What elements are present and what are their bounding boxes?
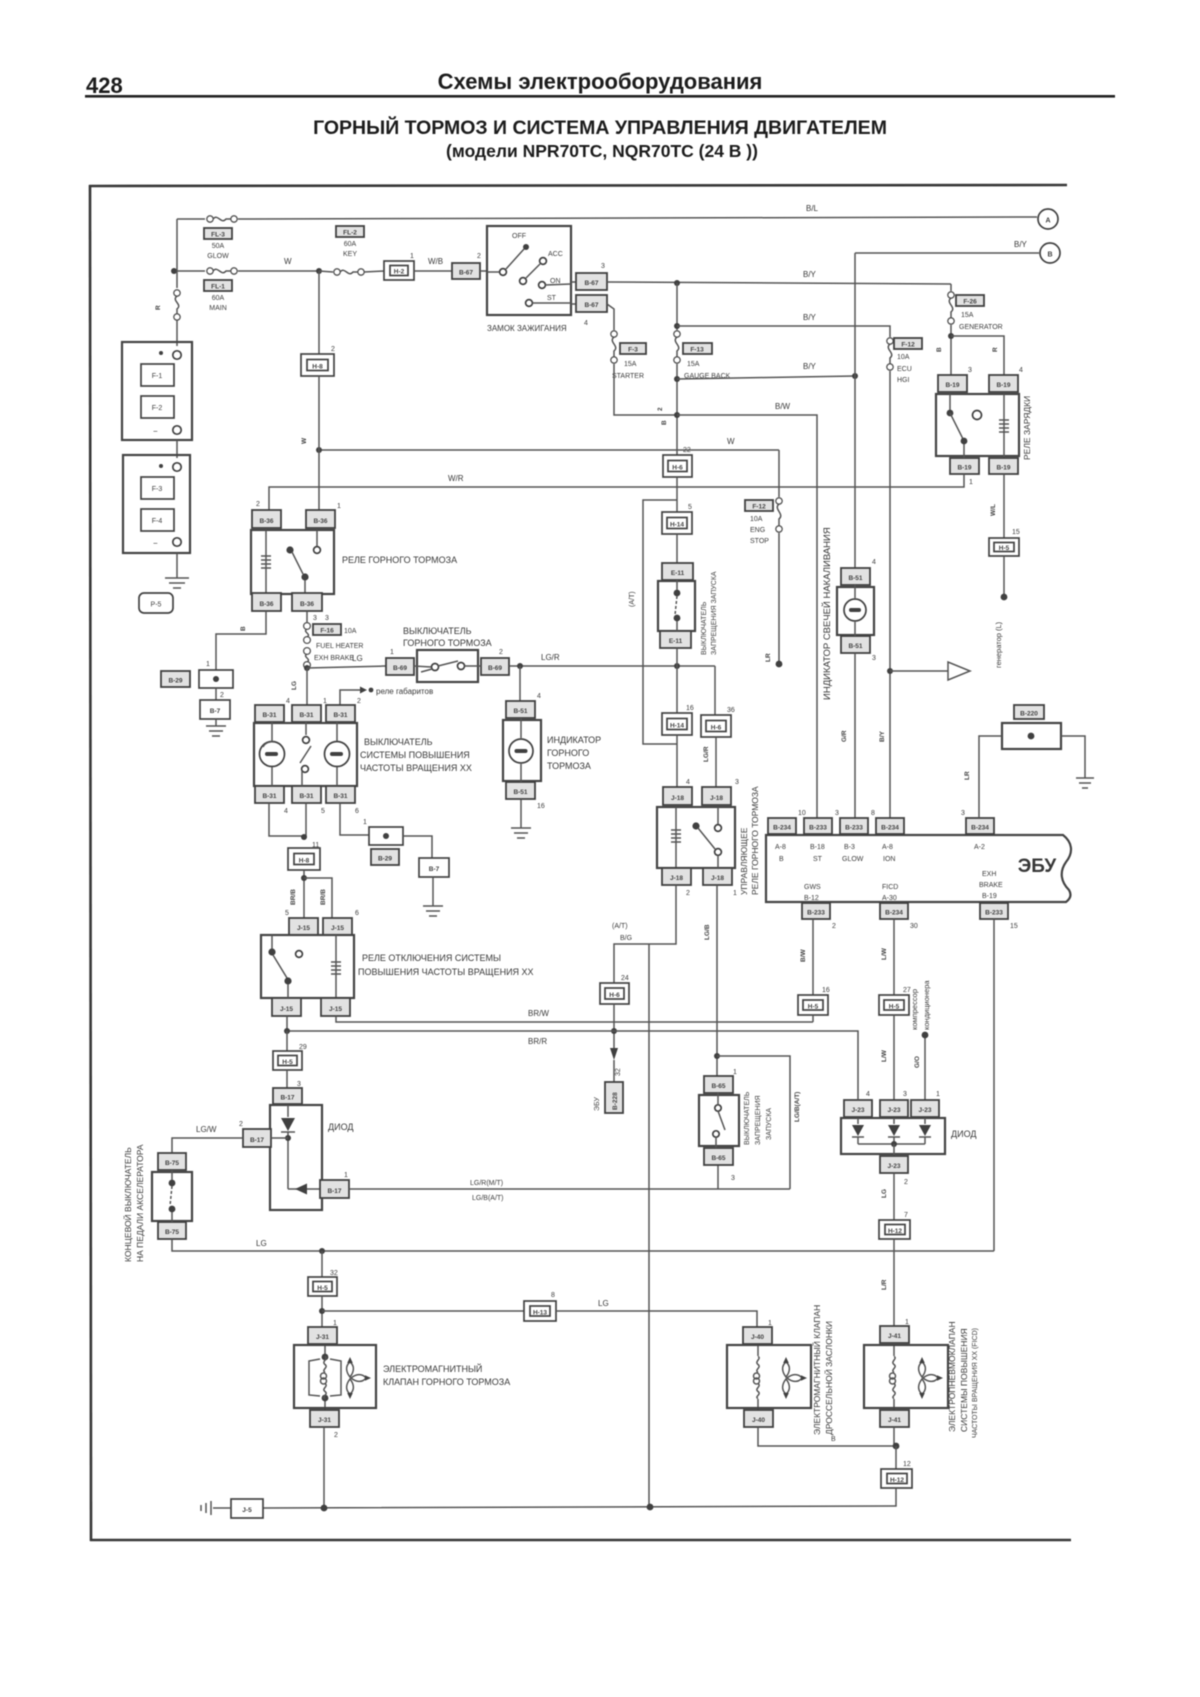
svg-text:1: 1 [410, 253, 414, 260]
svg-text:4: 4 [686, 779, 690, 786]
svg-text:3: 3 [735, 779, 739, 786]
connector B-69 right [481, 658, 509, 675]
svg-text:36: 36 [727, 707, 735, 714]
svg-text:B-233: B-233 [807, 910, 825, 917]
connector B-36 bottom left [252, 593, 281, 611]
svg-text:РЕЛЕ ОТКЛЮЧЕНИЯ СИСТЕМЫ: РЕЛЕ ОТКЛЮЧЕНИЯ СИСТЕМЫ [362, 953, 501, 963]
connector H-5 ficd [879, 995, 909, 1015]
svg-text:B-31: B-31 [262, 793, 276, 800]
charge relay box [936, 394, 1019, 456]
svg-text:J-40: J-40 [752, 1417, 765, 1424]
svg-text:A: A [1045, 218, 1050, 225]
svg-text:B/L: B/L [806, 204, 819, 213]
svg-text:B: B [240, 626, 247, 631]
svg-text:1: 1 [969, 479, 973, 486]
svg-text:B/G: B/G [620, 935, 632, 942]
connector B-17 right [320, 1180, 349, 1198]
svg-text:W: W [727, 437, 735, 446]
connector B-234 ecu top4 [876, 818, 904, 834]
connector H-6 24 [600, 983, 629, 1004]
svg-text:60A: 60A [212, 295, 225, 302]
svg-text:РЕЛЕ ГОРНОГО ТОРМОЗА: РЕЛЕ ГОРНОГО ТОРМОЗА [342, 555, 457, 565]
svg-text:J-31: J-31 [318, 1417, 331, 1424]
svg-text:3: 3 [313, 615, 317, 622]
svg-text:1: 1 [390, 649, 394, 656]
connector J-40 top [743, 1327, 772, 1344]
svg-text:29: 29 [299, 1044, 307, 1051]
svg-text:5: 5 [688, 504, 692, 511]
svg-text:(A/T): (A/T) [612, 923, 628, 930]
ECU box [766, 835, 1071, 902]
wire to H-5 32 [321, 1251, 323, 1277]
svg-text:B-31: B-31 [299, 712, 313, 719]
connector B-233 ecu top2 [804, 818, 832, 834]
svg-text:СИСТЕМЫ ПОВЫШЕНИЯ: СИСТЕМЫ ПОВЫШЕНИЯ [959, 1328, 969, 1432]
svg-text:КЛАПАН ГОРНОГО ТОРМОЗА: КЛАПАН ГОРНОГО ТОРМОЗА [383, 1377, 510, 1387]
wire battery link [176, 440, 178, 458]
svg-text:3: 3 [961, 810, 965, 817]
wire B-31 pin5 down [305, 803, 307, 837]
svg-text:A-8: A-8 [882, 844, 893, 851]
wire LG to H-12 [893, 1173, 895, 1220]
fuse FL-2 [319, 226, 364, 275]
connector E-11 bottom [660, 631, 691, 648]
XX cut relay box [261, 935, 354, 998]
connector B-67 pin4 [571, 303, 576, 305]
svg-text:B-67: B-67 [584, 302, 598, 309]
svg-text:B-36: B-36 [259, 518, 273, 525]
svg-text:кондиционера: кондиционера [922, 980, 931, 1030]
svg-text:B: B [779, 856, 784, 863]
wire generator L [1003, 474, 1005, 538]
svg-text:H-5: H-5 [999, 545, 1010, 552]
svg-text:16: 16 [822, 987, 830, 994]
connector B-234 ecu top5 [966, 818, 994, 834]
svg-text:B-233: B-233 [985, 910, 1003, 917]
svg-text:1: 1 [733, 1069, 737, 1076]
connector J-5 [231, 1499, 263, 1518]
svg-text:16: 16 [537, 803, 545, 810]
wire glow feed top [177, 218, 205, 220]
svg-text:B-19: B-19 [945, 382, 959, 389]
brake relay box [251, 530, 334, 594]
central riser B/Y [676, 283, 678, 330]
svg-text:J-15: J-15 [331, 925, 344, 932]
battery F-3/F-4 [123, 455, 190, 553]
connector H-6 36 [701, 715, 731, 737]
svg-text:F-3: F-3 [152, 486, 163, 493]
svg-text:H-13: H-13 [533, 1310, 547, 1317]
svg-text:32: 32 [330, 1270, 338, 1277]
connector H-12 upper [879, 1220, 910, 1239]
connector H-5 29 [273, 1051, 302, 1070]
ground riser [648, 944, 650, 1507]
svg-text:10A: 10A [344, 628, 357, 635]
connector B-19 bottom left [950, 458, 979, 474]
pedal switch box [152, 1172, 192, 1221]
svg-text:1: 1 [905, 1319, 909, 1326]
svg-text:HGI: HGI [897, 377, 910, 384]
svg-text:B-17: B-17 [327, 1188, 341, 1195]
wires to J-15 [303, 870, 305, 918]
svg-text:1: 1 [323, 698, 327, 705]
svg-text:компрессор: компрессор [910, 989, 919, 1030]
wire B-31 pin6 to B-29 [340, 803, 369, 835]
connector B-65 top [704, 1076, 733, 1093]
svg-text:B-220: B-220 [1020, 711, 1038, 718]
wire to ECU B-228 [614, 885, 676, 983]
svg-text:R: R [155, 305, 162, 310]
wire stubs XX switch [271, 722, 273, 741]
svg-text:3: 3 [731, 1175, 735, 1182]
svg-text:H-5: H-5 [282, 1059, 293, 1066]
connector J-15 top right [323, 918, 352, 935]
wire AT bypass around inhibitor [643, 500, 677, 744]
svg-text:4: 4 [286, 698, 290, 705]
svg-text:H-6: H-6 [672, 465, 683, 472]
svg-text:FUEL HEATER: FUEL HEATER [316, 643, 363, 650]
wire main W [174, 270, 205, 272]
svg-text:10A: 10A [897, 354, 910, 361]
wire W to junction [238, 270, 319, 272]
svg-text:H-5: H-5 [808, 1004, 819, 1011]
ground indicator [520, 799, 522, 828]
svg-text:3: 3 [903, 1091, 907, 1098]
svg-text:F-1: F-1 [152, 373, 163, 380]
svg-text:J-23: J-23 [887, 1163, 900, 1170]
svg-text:ЧАСТОТЫ ВРАЩЕНИЯ XX (FICD): ЧАСТОТЫ ВРАЩЕНИЯ XX (FICD) [972, 1328, 979, 1438]
svg-text:W: W [284, 257, 292, 266]
svg-text:2: 2 [220, 692, 224, 699]
svg-text:2: 2 [239, 1121, 243, 1128]
svg-text:ST: ST [813, 856, 823, 863]
svg-text:EXH: EXH [982, 871, 996, 878]
svg-text:B-233: B-233 [809, 825, 827, 832]
connector with node B-29 [199, 670, 233, 688]
fuse F-12 ECU HGI [887, 338, 922, 384]
svg-text:LG: LG [291, 681, 298, 690]
wire LG to throttle valve [322, 1310, 524, 1312]
svg-text:B-69: B-69 [393, 665, 407, 672]
svg-text:B-228: B-228 [612, 1092, 619, 1110]
svg-text:4: 4 [866, 1091, 870, 1098]
svg-text:B-12: B-12 [804, 895, 819, 902]
svg-text:ГОРНОГО ТОРМОЗА: ГОРНОГО ТОРМОЗА [403, 638, 492, 648]
svg-text:W/B: W/B [428, 257, 443, 266]
wire GWS to H-5 [812, 919, 814, 995]
connector B-7 right [419, 858, 449, 877]
svg-text:4: 4 [284, 808, 288, 815]
svg-text:Схемы электрооборудования: Схемы электрооборудования [438, 69, 763, 94]
connector B-233 ecu bottom3 [980, 903, 1008, 919]
wire stubs B-75 [171, 1170, 173, 1180]
connector H-6 22 [663, 455, 692, 477]
wires to relay [676, 735, 678, 787]
wire W branch [319, 449, 779, 451]
wire [676, 477, 678, 512]
svg-text:J-41: J-41 [888, 1417, 901, 1424]
svg-text:ПОВЫШЕНИЯ ЧАСТОТЫ ВРАЩЕНИЯ XX: ПОВЫШЕНИЯ ЧАСТОТЫ ВРАЩЕНИЯ XX [358, 967, 534, 977]
svg-text:FL-3: FL-3 [211, 232, 225, 239]
svg-text:4: 4 [537, 693, 541, 700]
svg-text:L/W: L/W [881, 1049, 888, 1062]
svg-text:22: 22 [683, 447, 691, 454]
connector B-234 ecu top1 [768, 818, 796, 834]
svg-text:B-75: B-75 [165, 1160, 179, 1167]
svg-text:LG: LG [352, 654, 363, 663]
svg-text:LG/B(A/T): LG/B(A/T) [794, 1092, 801, 1122]
ground B-220 [1076, 778, 1094, 788]
svg-text:ЭБУ: ЭБУ [594, 1097, 601, 1111]
svg-text:ВЫКЛЮЧАТЕЛЬ: ВЫКЛЮЧАТЕЛЬ [364, 737, 433, 747]
connector H-13 [524, 1301, 556, 1321]
svg-text:F-2: F-2 [152, 405, 163, 412]
svg-text:J-40: J-40 [751, 1334, 764, 1341]
wire to ground node [893, 1427, 895, 1446]
svg-text:B-234: B-234 [971, 825, 989, 832]
svg-text:B/Y: B/Y [803, 313, 817, 322]
svg-text:J-31: J-31 [316, 1334, 329, 1341]
connector B-75 top [158, 1153, 186, 1170]
connector H-2 [364, 271, 384, 272]
svg-text:−: − [153, 427, 158, 436]
connector B-31 bot1 [255, 786, 284, 803]
svg-text:ИНДИКАТОР СВЕЧЕЙ НАКАЛИВАНИЯ: ИНДИКАТОР СВЕЧЕЙ НАКАЛИВАНИЯ [821, 527, 833, 700]
svg-text:1: 1 [733, 890, 737, 897]
svg-text:F-4: F-4 [152, 518, 163, 525]
svg-text:B-234: B-234 [773, 825, 791, 832]
svg-text:B-31: B-31 [333, 712, 347, 719]
svg-text:F-12: F-12 [901, 342, 915, 349]
ground B-7 [206, 726, 226, 736]
svg-text:1: 1 [206, 661, 210, 668]
svg-text:J-18: J-18 [671, 795, 684, 802]
frame bottom edge [90, 1539, 1071, 1542]
svg-text:2: 2 [334, 1432, 338, 1439]
connector J-15 bottom left [272, 998, 301, 1016]
wire to B-7 right [403, 836, 432, 858]
wire below fuses [676, 364, 678, 455]
svg-text:2: 2 [357, 698, 361, 705]
connector B-19 bottom right [989, 458, 1018, 474]
connector B-31 bot3 [326, 786, 355, 803]
svg-text:7: 7 [904, 1212, 908, 1219]
wire W/B [414, 270, 452, 272]
svg-text:J-15: J-15 [297, 925, 310, 932]
svg-text:B-36: B-36 [313, 518, 327, 525]
svg-text:2: 2 [832, 923, 836, 930]
node A circle [1038, 209, 1058, 229]
svg-text:J-18: J-18 [710, 795, 723, 802]
wire LR stub [778, 533, 780, 663]
svg-text:A-2: A-2 [974, 844, 985, 851]
svg-text:30: 30 [910, 923, 918, 930]
svg-text:24: 24 [621, 975, 629, 982]
wire LG/R MT [349, 1188, 790, 1190]
start inhibit switch2 box [699, 1095, 739, 1146]
svg-text:MAIN: MAIN [209, 305, 227, 312]
connector H-8 top [318, 271, 320, 354]
connector with node B-29 right [369, 827, 403, 845]
svg-text:ДИОД: ДИОД [328, 1122, 353, 1132]
fuse FL-3 [204, 216, 237, 260]
wire [676, 534, 678, 563]
wire LG to brake switch [307, 666, 386, 668]
svg-text:H-14: H-14 [670, 522, 684, 529]
svg-text:ТОРМОЗА: ТОРМОЗА [547, 761, 591, 771]
svg-text:LG/W: LG/W [196, 1125, 217, 1134]
svg-text:КОНЦЕВОЙ ВЫКЛЮЧАТЕЛЬ: КОНЦЕВОЙ ВЫКЛЮЧАТЕЛЬ [122, 1147, 133, 1262]
svg-text:ST: ST [547, 295, 557, 302]
wire stubs E-11 [676, 580, 678, 590]
throttle solenoid valve box [727, 1345, 811, 1408]
svg-text:FL-1: FL-1 [211, 284, 225, 291]
ground bus wire [263, 1488, 896, 1508]
wire LG/R drop [714, 666, 716, 715]
svg-text:3: 3 [601, 263, 605, 270]
svg-text:G/O: G/O [914, 1056, 921, 1068]
svg-text:15A: 15A [624, 361, 637, 368]
wire stubs J-15 relay [271, 935, 273, 949]
svg-text:2: 2 [499, 649, 503, 656]
fuse F-26 generator [948, 292, 1003, 331]
diode 1 [857, 1118, 859, 1124]
wire B/Y branch to glow column [677, 376, 855, 379]
wire starter down [614, 364, 677, 415]
connector J-18 top right [702, 787, 731, 805]
svg-text:B/W: B/W [800, 949, 807, 963]
svg-text:3: 3 [835, 810, 839, 817]
svg-text:НА ПЕДАЛИ АКСЕЛЕРАТОРА: НА ПЕДАЛИ АКСЕЛЕРАТОРА [135, 1144, 145, 1262]
svg-text:ДИОД: ДИОД [951, 1129, 976, 1139]
brake switch box [417, 650, 478, 682]
svg-text:60A: 60A [344, 241, 357, 248]
connector H-5 32 [308, 1277, 337, 1296]
svg-text:BR/R: BR/R [528, 1037, 547, 1046]
svg-text:15: 15 [1012, 529, 1020, 536]
wire LG/R [509, 665, 715, 667]
brake solenoid valve box [294, 1345, 376, 1408]
glow column riser [854, 253, 856, 568]
connector B-51 glow bottom [841, 636, 870, 653]
svg-text:СИСТЕМЫ ПОВЫШЕНИЯ: СИСТЕМЫ ПОВЫШЕНИЯ [360, 750, 470, 760]
ground J-5 [213, 1507, 231, 1509]
wire to H-12 lower [895, 1446, 897, 1469]
svg-text:J-23: J-23 [887, 1107, 900, 1114]
svg-text:LG/R: LG/R [703, 746, 710, 762]
frame top edge [89, 185, 1067, 186]
svg-text:(модели NPR70TC, NQR70TC (24 В: (модели NPR70TC, NQR70TC (24 В )) [446, 141, 758, 161]
svg-text:J-18: J-18 [711, 875, 724, 882]
svg-text:B-69: B-69 [488, 665, 502, 672]
svg-text:6: 6 [355, 910, 359, 917]
svg-text:ДРОССЕЛЬНОЙ ЗАСЛОНКИ: ДРОССЕЛЬНОЙ ЗАСЛОНКИ [823, 1321, 834, 1435]
connector B-233 ecu top3 [840, 818, 868, 834]
wire left riser [176, 219, 178, 288]
wire B/Y to ref B [855, 252, 1039, 254]
svg-text:B-19: B-19 [957, 465, 971, 472]
connector B-75 bottom [158, 1222, 186, 1239]
svg-text:2: 2 [256, 501, 260, 508]
connector J-15 bottom right [321, 998, 350, 1016]
svg-text:H-5: H-5 [889, 1004, 900, 1011]
diode 2 [893, 1118, 895, 1124]
svg-text:32: 32 [615, 1068, 622, 1076]
glow indicator lamp [837, 587, 874, 635]
svg-text:LG: LG [256, 1239, 267, 1248]
svg-text:B-67: B-67 [584, 280, 598, 287]
connector B-31 bot2 [292, 786, 321, 803]
fuse F-16 fuel heater [304, 611, 364, 668]
connector H-8 lower [288, 848, 320, 870]
svg-text:3: 3 [297, 1081, 301, 1088]
svg-text:3: 3 [325, 615, 329, 622]
svg-text:4: 4 [1019, 367, 1023, 374]
svg-text:B-19: B-19 [996, 382, 1010, 389]
connector H-14 16 [662, 713, 692, 735]
wire B-220 left [979, 736, 1002, 818]
wire stubs charge relay [949, 394, 951, 410]
svg-text:B-51: B-51 [848, 643, 862, 650]
svg-text:J-5: J-5 [242, 1507, 252, 1514]
svg-text:генератор (L): генератор (L) [994, 621, 1003, 668]
svg-text:B-31: B-31 [333, 793, 347, 800]
wire B/Y from ignition [607, 282, 951, 284]
ground B-7 right [423, 906, 443, 916]
connector J-23 a [844, 1100, 872, 1117]
svg-text:LG/R: LG/R [541, 653, 560, 662]
svg-text:1: 1 [936, 1091, 940, 1098]
svg-text:J-15: J-15 [280, 1006, 293, 1013]
svg-text:ACC: ACC [548, 251, 563, 258]
svg-text:2: 2 [686, 890, 690, 897]
fuse F-12 ENG STOP [745, 450, 782, 545]
connector B-31 top2 [292, 705, 321, 722]
connector J-23 b [880, 1100, 908, 1117]
svg-text:ЗАПУСКА: ЗАПУСКА [766, 1108, 773, 1140]
svg-text:H-6: H-6 [711, 725, 722, 732]
connector B-67 pin2 [452, 263, 480, 279]
svg-text:B-18: B-18 [810, 844, 825, 851]
svg-text:W/R: W/R [448, 474, 464, 483]
svg-text:B-36: B-36 [259, 601, 273, 608]
svg-text:B-29: B-29 [378, 856, 392, 863]
svg-text:ГОРНОГО: ГОРНОГО [547, 748, 589, 758]
arrow to ECU [613, 1004, 615, 1048]
B-220 node box [1002, 723, 1061, 749]
connector B-31 top1 [255, 705, 284, 722]
connector B-233 ecu bottom1 [802, 903, 830, 919]
XX raise switch box [254, 723, 357, 786]
svg-text:H-5: H-5 [317, 1285, 328, 1292]
wire B/Y branch to ECU fuse [677, 326, 890, 337]
connector B-69 left [386, 658, 414, 675]
svg-text:EXH BRAKE: EXH BRAKE [314, 655, 354, 662]
svg-text:ENG: ENG [750, 527, 765, 534]
svg-text:ЗАПРЕЩЕНИЯ ЗАПУСКА: ЗАПРЕЩЕНИЯ ЗАПУСКА [711, 571, 718, 655]
svg-text:B-65: B-65 [711, 1155, 725, 1162]
svg-text:B-31: B-31 [262, 712, 276, 719]
svg-text:LR: LR [765, 653, 772, 662]
svg-text:H-6: H-6 [609, 992, 620, 999]
svg-text:B/Y: B/Y [879, 731, 886, 743]
svg-text:H-8: H-8 [299, 858, 310, 865]
wire to ground node [758, 1427, 896, 1446]
inhibitor switch box [658, 581, 695, 631]
svg-text:GWS: GWS [804, 884, 821, 891]
svg-text:B-65: B-65 [711, 1083, 725, 1090]
svg-text:4: 4 [584, 320, 588, 327]
